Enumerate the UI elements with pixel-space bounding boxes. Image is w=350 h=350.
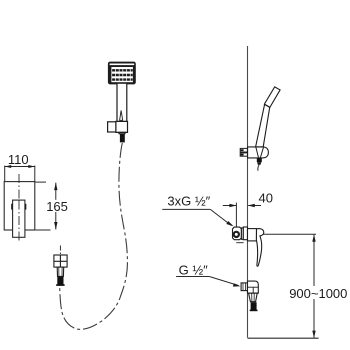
svg-text:900~1000: 900~1000: [289, 286, 347, 301]
valve body centre line: [18, 201, 20, 242]
dimension 900~1000: [313, 235, 315, 338]
wall bracket of hand shower: [108, 121, 128, 133]
svg-text:G ½″: G ½″: [179, 263, 209, 278]
hand shower handle: [117, 83, 127, 121]
shower outlet elbow: [241, 281, 258, 302]
shower hose (dash-dot): [60, 143, 128, 329]
wall line: [247, 46, 249, 338]
wall union (hose wall connector, bottom-left): [54, 246, 67, 277]
svg-text:110: 110: [8, 152, 29, 167]
shower holder on wall: [248, 147, 269, 158]
valve trim and lever: [248, 229, 264, 267]
svg-text:3xG ½″: 3xG ½″: [167, 194, 210, 209]
floor line: [248, 337, 319, 339]
plate centre line: [18, 174, 20, 200]
hose nut under holder: [257, 158, 262, 162]
svg-text:165: 165: [46, 199, 68, 214]
hose nut at wall union: [57, 277, 63, 285]
hand shower head (left view): [108, 62, 135, 84]
concealed valve mounting plate (left view): [4, 182, 35, 230]
hose stub under holder: [258, 165, 259, 171]
concealed valve (side view at wall): [233, 227, 248, 240]
hose nut at hand shower: [120, 134, 125, 143]
valve centre tick to dimension: [257, 233, 316, 235]
valve side bosses: [11, 204, 13, 210]
valve fitting under-edge: [236, 242, 243, 244]
svg-text:40: 40: [259, 191, 273, 206]
dimension 40: [223, 203, 261, 228]
valve body in plate: [13, 200, 25, 237]
hose nut at outlet elbow: [251, 302, 257, 310]
hand shower in holder (right view): [256, 87, 281, 147]
dimension 165: [35, 182, 56, 230]
dimension 110: [5, 166, 35, 182]
holder mounting tabs (behind wall): [240, 148, 247, 156]
